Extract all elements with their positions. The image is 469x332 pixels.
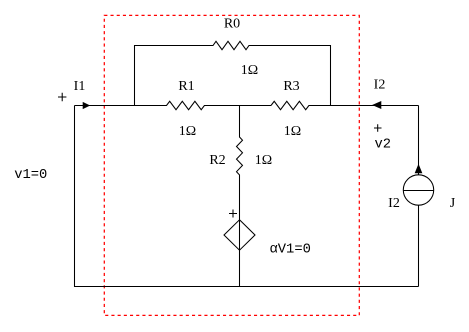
- plus sign dependent source: [229, 210, 237, 218]
- current source J circle: [403, 175, 433, 205]
- svg-text:v2: v2: [375, 138, 392, 153]
- arrow J source: [415, 165, 422, 173]
- plus sign V2: [374, 124, 382, 132]
- current source J bar: [403, 190, 433, 192]
- svg-text:1Ω: 1Ω: [255, 153, 272, 168]
- wire right vertical (bottom part): [418, 205, 420, 287]
- wire right vertical (top part): [418, 106, 420, 176]
- svg-text:R0: R0: [224, 17, 240, 32]
- svg-text:I1: I1: [74, 79, 86, 94]
- svg-text:R3: R3: [283, 79, 299, 94]
- svg-text:I2: I2: [388, 196, 400, 211]
- svg-text:1Ω: 1Ω: [241, 63, 258, 78]
- svg-text:R1: R1: [178, 79, 194, 94]
- arrow I1: [83, 102, 90, 108]
- svg-text:1Ω: 1Ω: [179, 124, 196, 139]
- wire left vertical and bottom: [75, 106, 419, 287]
- arrow I2: [373, 101, 381, 108]
- dependent source aV1 diamond: [224, 220, 255, 250]
- plus sign V1: [58, 93, 66, 101]
- svg-text:1Ω: 1Ω: [284, 124, 301, 139]
- dashed boundary box: [104, 15, 359, 315]
- wire middle branch with resistor R2: [237, 106, 243, 287]
- svg-text:αV1=0: αV1=0: [270, 243, 311, 258]
- wire top main with resistor R1: [75, 101, 272, 109]
- svg-text:R2: R2: [209, 153, 225, 168]
- svg-text:I2: I2: [374, 78, 386, 93]
- resistor R3 in top main wire: [271, 101, 419, 109]
- svg-text:v1=0: v1=0: [14, 168, 47, 183]
- svg-text:J: J: [450, 196, 456, 211]
- wire R0 loop with resistor R0: [135, 41, 331, 105]
